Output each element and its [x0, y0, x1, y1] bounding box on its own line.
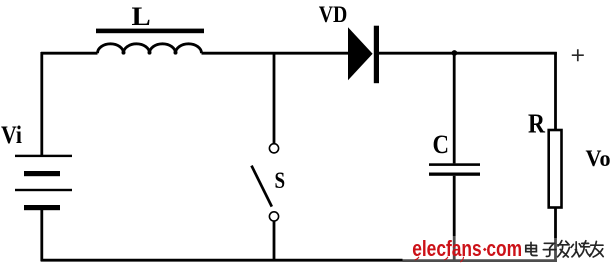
inductor L winding	[98, 44, 202, 53]
svg-text:Vi: Vi	[1, 122, 22, 149]
wire left vertical lower (battery minus to bottom rail)	[40, 209, 43, 261]
watermark logo middle dot	[483, 248, 487, 252]
wire left vertical (top corner down to battery plus)	[40, 52, 43, 156]
switch S top contact	[269, 144, 278, 153]
capacitor C top plate	[429, 163, 480, 166]
svg-text:VD: VD	[319, 2, 348, 28]
svg-text:S: S	[275, 168, 286, 194]
wire switch stem lower	[273, 221, 276, 261]
battery Vi plate 1 (long thin)	[15, 155, 72, 157]
capacitor C bottom plate	[429, 173, 480, 176]
node junction dot (capacitor tap)	[452, 50, 458, 56]
wire bottom rail (black part)	[41, 259, 403, 262]
inductor junction nub 3	[174, 51, 178, 55]
battery Vi plate 4 (short thick)	[24, 205, 60, 210]
wire capacitor branch lower (under watermark, grey)	[453, 236, 456, 260]
wire top-left horizontal (Vi top to inductor)	[41, 52, 98, 55]
inductor L core bar	[96, 29, 204, 34]
watermark elecfans.com logo "elecfans"	[412, 237, 481, 262]
battery Vi plate 3 (long thin)	[15, 189, 72, 191]
logo letter tails	[415, 257, 464, 262]
wire capacitor branch upper	[453, 53, 456, 163]
wire resistor branch lower (under watermark, grey)	[554, 238, 557, 260]
wire resistor branch upper	[554, 52, 557, 130]
resistor R body	[549, 130, 562, 208]
switch S blade	[252, 166, 272, 207]
svg-text:C: C	[433, 130, 450, 159]
battery Vi plate 2 (short thick)	[24, 171, 60, 176]
wire bottom rail (under watermark, grey)	[403, 259, 558, 262]
watermark elecfans.com logo "com"	[486, 237, 522, 262]
wire top middle (inductor to diode anode)	[202, 52, 349, 55]
inductor junction nub 1	[122, 51, 126, 55]
wire top right (diode cathode to right corner)	[379, 52, 557, 55]
watermark chinese char 电	[526, 242, 537, 255]
svg-text:com: com	[486, 237, 522, 262]
wire capacitor branch lower (black part)	[453, 176, 456, 236]
svg-text:Vo: Vo	[586, 146, 611, 171]
switch S bottom contact	[269, 212, 278, 221]
svg-text:L: L	[132, 1, 151, 31]
inductor junction nub 2	[148, 51, 152, 55]
watermark chinese char 子	[543, 243, 556, 256]
wire resistor branch lower (black part)	[554, 208, 557, 239]
svg-text:R: R	[528, 108, 545, 138]
watermark chinese char 友	[590, 241, 603, 257]
wire switch stem upper	[273, 52, 276, 144]
diode VD triangle (anode)	[348, 27, 373, 80]
watermark chinese char 发	[558, 241, 570, 257]
plus sign output polarity	[572, 49, 584, 61]
watermark chinese char 烧	[571, 241, 591, 257]
diode VD cathode bar	[374, 26, 379, 83]
